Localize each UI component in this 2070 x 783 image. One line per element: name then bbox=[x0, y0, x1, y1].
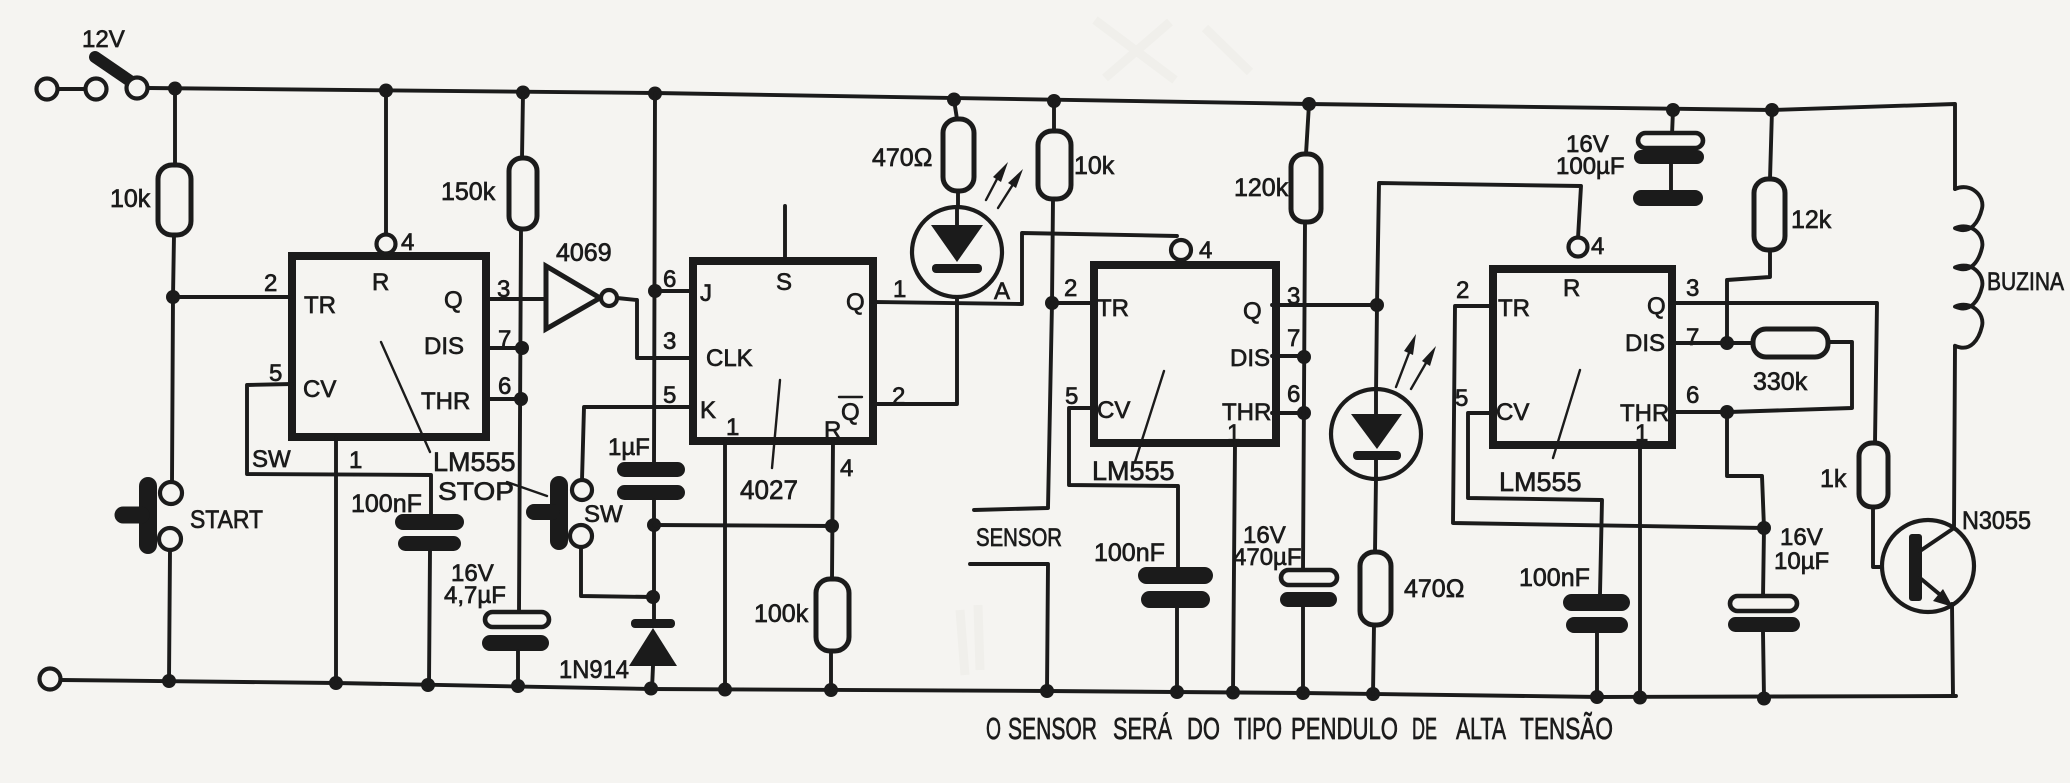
capacitor C1 100nF bbox=[395, 514, 464, 530]
pin 4 circle U4 bbox=[1171, 240, 1191, 260]
wire CV3 to 100nF3 bbox=[1468, 413, 1602, 594]
svg-text:SENSOR: SENSOR bbox=[976, 524, 1062, 552]
wire S input stub bbox=[783, 206, 787, 257]
svg-text:SW: SW bbox=[584, 501, 623, 528]
wire 10k2 to TR2 node bbox=[1052, 199, 1053, 303]
svg-text:6: 6 bbox=[498, 373, 511, 400]
wire 1uF bottom to R line bbox=[652, 500, 656, 621]
svg-text:LM555: LM555 bbox=[1092, 456, 1175, 486]
svg-text:DIS: DIS bbox=[1625, 330, 1665, 357]
svg-text:LM555: LM555 bbox=[433, 447, 516, 477]
junction top rail at 12k bbox=[1765, 103, 1779, 117]
svg-text:LM555: LM555 bbox=[1499, 467, 1582, 497]
wire DIS2 bbox=[1272, 354, 1304, 358]
junction dots bottom rail bbox=[162, 674, 176, 688]
svg-text:O: O bbox=[986, 711, 1001, 746]
node 12V terminal circle bbox=[37, 79, 58, 100]
wire TR node down to START bbox=[172, 297, 173, 483]
svg-text:6: 6 bbox=[1686, 382, 1699, 409]
svg-text:5: 5 bbox=[1065, 383, 1078, 410]
flip-flop U3 4027 box bbox=[693, 261, 873, 441]
svg-text:BUZINA: BUZINA bbox=[1987, 268, 2064, 296]
svg-text:SW: SW bbox=[252, 446, 291, 473]
pin 4 reset circle U1 bbox=[384, 90, 388, 234]
wire 150k line down bbox=[519, 229, 521, 612]
svg-text:1: 1 bbox=[726, 414, 739, 441]
svg-text:10k: 10k bbox=[1074, 152, 1115, 180]
wire inverter output to CLK bbox=[617, 298, 693, 358]
svg-text:1: 1 bbox=[893, 276, 906, 303]
svg-text:TR: TR bbox=[1097, 295, 1129, 322]
diode D1 1N914 bbox=[631, 619, 675, 628]
svg-text:1: 1 bbox=[1635, 420, 1648, 447]
ground terminal circle bbox=[40, 669, 61, 690]
wire THR3 down to feedback node bbox=[1727, 412, 1764, 528]
svg-text:4: 4 bbox=[840, 455, 853, 482]
wire pin1 U4 to ground bbox=[1233, 443, 1235, 692]
pointer STOP to SW bbox=[507, 482, 547, 496]
svg-text:12V: 12V bbox=[82, 26, 125, 53]
svg-text:Q: Q bbox=[1243, 298, 1262, 325]
svg-text:DIS: DIS bbox=[424, 333, 464, 360]
svg-text:TIPO: TIPO bbox=[1234, 711, 1282, 746]
inverter U2 4069 bbox=[546, 266, 600, 329]
svg-text:150k: 150k bbox=[441, 178, 496, 206]
wire Q2 to LED2 node bbox=[1272, 303, 1377, 307]
svg-text:2: 2 bbox=[264, 270, 277, 297]
svg-text:TR: TR bbox=[304, 292, 336, 319]
svg-text:5: 5 bbox=[663, 382, 676, 409]
scan artifact shading bbox=[960, 20, 1250, 675]
wire bbox=[58, 87, 86, 91]
wire 4027 pin1 to ground bbox=[723, 441, 727, 690]
svg-text:3: 3 bbox=[663, 328, 676, 355]
svg-text:5: 5 bbox=[1455, 385, 1468, 412]
wire TR1 bbox=[173, 295, 292, 299]
pushbutton SW S2 bbox=[582, 407, 693, 480]
svg-text:6: 6 bbox=[1287, 381, 1300, 408]
svg-text:16V: 16V bbox=[1780, 524, 1823, 551]
svg-text:TENSÃO: TENSÃO bbox=[1520, 711, 1613, 746]
pushbutton START S1 bbox=[139, 486, 157, 545]
resistor 470ohm R7 bbox=[1360, 552, 1391, 625]
svg-text:330k: 330k bbox=[1753, 368, 1808, 396]
svg-text:Q: Q bbox=[1647, 293, 1666, 320]
switch throw circle bbox=[127, 78, 148, 99]
wire START to ground rail bbox=[169, 550, 170, 681]
svg-text:S: S bbox=[776, 269, 792, 296]
svg-text:K: K bbox=[700, 397, 716, 424]
svg-text:DO: DO bbox=[1187, 711, 1220, 746]
svg-text:R: R bbox=[1563, 275, 1580, 302]
wire SW bottom to diode node bbox=[581, 547, 653, 597]
op timer U1 LM555 box bbox=[292, 256, 486, 437]
wire 120k line down to 470uF bbox=[1303, 222, 1305, 570]
svg-text:10k: 10k bbox=[110, 185, 151, 213]
svg-text:DE: DE bbox=[1412, 711, 1437, 746]
LED D2 bbox=[912, 207, 1002, 297]
switch lever bbox=[95, 57, 133, 83]
svg-text:START: START bbox=[190, 506, 263, 534]
svg-text:4027: 4027 bbox=[740, 475, 798, 505]
svg-text:CV: CV bbox=[1496, 399, 1529, 426]
resistor 330k R9 bbox=[1753, 329, 1828, 357]
pin 4 circle U5 bbox=[1569, 238, 1588, 257]
wire Q1 to inverter bbox=[486, 297, 548, 301]
transistor Q1 N3055 bbox=[1882, 520, 1974, 612]
wire CV1 to 100nF bbox=[247, 384, 431, 514]
capacitor C8 100nF bbox=[1563, 594, 1630, 611]
junction top rail at 470ohm bbox=[947, 93, 961, 107]
svg-text:Q: Q bbox=[846, 289, 865, 316]
resistor 100k R3 bbox=[816, 579, 849, 651]
wire TR3 to feedback node bbox=[1453, 306, 1764, 528]
svg-text:470µF: 470µF bbox=[1233, 544, 1302, 571]
wire CV2 to 100nF2 bbox=[1069, 408, 1178, 567]
pointer line U4 bbox=[1135, 371, 1164, 462]
junction top rail at 10k2 bbox=[1047, 94, 1061, 108]
svg-text:4: 4 bbox=[1591, 233, 1604, 260]
LED D3 arrows bbox=[1396, 334, 1436, 389]
svg-text:7: 7 bbox=[1686, 324, 1699, 351]
junction top rail at 10k bbox=[168, 82, 182, 96]
wire 10k to TR node bbox=[173, 235, 174, 297]
wire pin1 U5 to ground bbox=[1638, 445, 1642, 697]
wire 470ohm to LED1 bbox=[956, 191, 960, 212]
switch pole circle bbox=[86, 79, 107, 100]
svg-text:2: 2 bbox=[1456, 277, 1469, 304]
resistor 470ohm R4 bbox=[954, 100, 957, 119]
wire top supply rail bbox=[148, 88, 1955, 189]
svg-text:THR: THR bbox=[421, 388, 470, 415]
svg-text:CV: CV bbox=[303, 376, 336, 403]
svg-text:100nF: 100nF bbox=[1519, 564, 1590, 592]
svg-text:7: 7 bbox=[1287, 325, 1300, 352]
svg-text:4: 4 bbox=[401, 229, 414, 256]
junction top rail at 120k bbox=[1302, 97, 1316, 111]
junction top rail at J line bbox=[648, 87, 662, 101]
svg-text:470Ω: 470Ω bbox=[1404, 575, 1464, 603]
svg-text:A: A bbox=[994, 278, 1010, 305]
svg-text:SENSOR: SENSOR bbox=[1008, 711, 1097, 746]
resistor 1k R10 bbox=[1859, 443, 1888, 507]
wire Qbar 4027 to LED1 cathode bbox=[873, 273, 957, 404]
svg-text:2: 2 bbox=[892, 383, 905, 410]
resistor 120k R6 bbox=[1306, 104, 1309, 154]
LED D2 arrows bbox=[986, 162, 1023, 208]
pointer line U5 bbox=[1553, 370, 1580, 458]
wire 1k to base bbox=[1873, 507, 1910, 567]
wire DIS3 to 330k bbox=[1672, 341, 1755, 345]
inductor L1 BUZINA coil bbox=[1955, 187, 1982, 348]
wire bottom ground rail bbox=[61, 680, 1956, 697]
capacitor C7 10uF electrolytic bbox=[1763, 528, 1764, 598]
wire J line vertical bbox=[654, 93, 655, 462]
svg-text:4,7µF: 4,7µF bbox=[444, 582, 506, 609]
svg-text:J: J bbox=[700, 280, 712, 307]
resistor 10k R1 bbox=[158, 165, 191, 235]
wire sensor lower terminal to ground bbox=[970, 564, 1048, 691]
svg-text:R: R bbox=[372, 269, 389, 296]
wire R 4027 down to 100k bbox=[832, 441, 833, 579]
capacitor C4 470uF electrolytic bbox=[1281, 570, 1337, 585]
svg-text:TR: TR bbox=[1498, 295, 1530, 322]
svg-text:3: 3 bbox=[1686, 275, 1699, 302]
wire Q 4027 to node A and pin4 U4 bbox=[873, 233, 1177, 304]
timer U5 LM555 box bbox=[1493, 269, 1672, 445]
svg-text:100nF: 100nF bbox=[351, 490, 422, 518]
wire TR2 node down to sensor terminal bbox=[974, 303, 1052, 510]
junction top rail at R pin U1 bbox=[379, 84, 393, 98]
svg-text:12k: 12k bbox=[1791, 206, 1832, 234]
capacitor C6 100uF electrolytic bbox=[1672, 110, 1673, 135]
wire LED2 to 470ohm2 bbox=[1375, 477, 1376, 552]
wire collector to coil bbox=[1954, 346, 1955, 528]
wire pin1 U1 to ground bbox=[334, 437, 338, 683]
svg-text:100k: 100k bbox=[754, 600, 809, 628]
capacitor C2 4.7uF electrolytic bbox=[485, 612, 549, 627]
svg-text:N3055: N3055 bbox=[1962, 507, 2031, 535]
svg-text:100µF: 100µF bbox=[1556, 153, 1625, 180]
wire Q2 node down to LED2 bbox=[1376, 305, 1377, 394]
svg-text:100nF: 100nF bbox=[1094, 539, 1165, 567]
svg-text:4: 4 bbox=[1199, 237, 1212, 264]
svg-text:1µF: 1µF bbox=[608, 434, 650, 461]
wire THR1 bbox=[486, 397, 521, 401]
svg-text:Q: Q bbox=[841, 399, 860, 426]
svg-text:120k: 120k bbox=[1234, 174, 1289, 202]
capacitor C5 100nF bbox=[1138, 567, 1213, 584]
junction top rail at 150k bbox=[516, 86, 530, 100]
svg-text:CV: CV bbox=[1097, 397, 1130, 424]
pointer line U3 bbox=[772, 380, 780, 468]
svg-text:6: 6 bbox=[663, 266, 676, 293]
resistor 10k R5 bbox=[1052, 101, 1056, 131]
wire 12k to DIS3 node bbox=[1727, 250, 1770, 343]
svg-text:1: 1 bbox=[349, 447, 362, 474]
wire Q3 to 1k bbox=[1672, 303, 1877, 443]
timer U4 LM555 box bbox=[1094, 265, 1276, 443]
svg-text:STOP: STOP bbox=[438, 478, 514, 506]
svg-text:470Ω: 470Ω bbox=[872, 144, 932, 172]
svg-text:PENDULO: PENDULO bbox=[1291, 711, 1398, 746]
svg-text:4069: 4069 bbox=[556, 239, 612, 267]
svg-text:CLK: CLK bbox=[706, 345, 753, 372]
svg-text:Q: Q bbox=[444, 287, 463, 314]
resistor 12k R8 bbox=[1770, 110, 1772, 179]
wire THR2 bbox=[1272, 411, 1304, 415]
svg-text:1k: 1k bbox=[1820, 465, 1847, 493]
capacitor C3 1uF bbox=[617, 462, 685, 477]
svg-text:DIS: DIS bbox=[1230, 345, 1270, 372]
svg-text:10µF: 10µF bbox=[1774, 548, 1829, 575]
pointer line U1 bbox=[381, 342, 430, 452]
wire reset U5 from Q2 node bbox=[1377, 183, 1581, 305]
node TR1 junction bbox=[166, 290, 180, 304]
wire 330k to THR3 bbox=[1729, 342, 1852, 412]
wire J pin bbox=[655, 289, 693, 293]
svg-text:ALTA: ALTA bbox=[1456, 711, 1506, 746]
svg-text:2: 2 bbox=[1064, 275, 1077, 302]
LED D3 bbox=[1331, 389, 1421, 479]
wire DIS1 bbox=[486, 346, 522, 350]
wire TR2 bbox=[1052, 301, 1094, 305]
resistor 150k R2 bbox=[522, 93, 523, 158]
junction top rail at 100uF bbox=[1666, 103, 1680, 117]
svg-text:1N914: 1N914 bbox=[559, 656, 629, 684]
wire 10k branch bbox=[173, 88, 177, 165]
wire THR3 bbox=[1672, 410, 1729, 414]
svg-text:SERÁ: SERÁ bbox=[1113, 711, 1172, 746]
